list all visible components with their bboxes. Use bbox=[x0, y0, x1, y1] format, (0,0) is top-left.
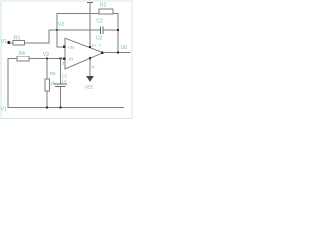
svg-text:V1: V1 bbox=[1, 106, 7, 112]
svg-text:R5: R5 bbox=[50, 71, 56, 76]
junction dot output/loop bbox=[117, 52, 119, 54]
wire staircase to node bbox=[49, 29, 58, 31]
junction dot R5 branch bbox=[46, 58, 48, 60]
svg-text:U2: U2 bbox=[96, 36, 103, 42]
resistor R4 bbox=[17, 56, 29, 61]
wire C1 top lead bbox=[60, 59, 62, 84]
wire inverting node vertical bbox=[56, 13, 58, 47]
capacitor C1 bbox=[54, 84, 67, 87]
svg-text:1k: 1k bbox=[50, 81, 55, 86]
terminal square V1 bbox=[7, 41, 10, 44]
border frame bbox=[1, 1, 132, 118]
svg-text:1u: 1u bbox=[62, 78, 67, 83]
pin square -IN bbox=[63, 57, 66, 60]
wire R5 bottom lead bbox=[46, 91, 48, 108]
wire bottom rail bbox=[8, 107, 124, 109]
junction dot C1 branch bbox=[60, 58, 62, 60]
junction dot C1 rail bbox=[60, 107, 62, 109]
pin square +IN bbox=[63, 46, 66, 49]
svg-text:V1: V1 bbox=[1, 39, 7, 45]
node junction dot bbox=[56, 29, 58, 31]
wire C1 bottom lead bbox=[60, 86, 62, 107]
svg-text:C2: C2 bbox=[96, 18, 103, 24]
resistor R2 top bbox=[99, 9, 113, 14]
wire right loop vertical bbox=[117, 14, 119, 53]
wire +IN lead bbox=[57, 46, 64, 48]
pin square V+ bbox=[89, 46, 91, 48]
wire node to C2 bbox=[57, 29, 100, 31]
wire VCC to V+ pin bbox=[89, 2, 91, 47]
wire V- pin to VEE bbox=[89, 58, 91, 76]
capacitor C2 bbox=[100, 26, 103, 34]
junction dot R5 rail bbox=[46, 107, 48, 109]
wire left to R4 bbox=[8, 58, 18, 60]
resistor R1 bbox=[13, 40, 24, 45]
wire R1 to staircase bbox=[24, 42, 49, 44]
svg-text:R2: R2 bbox=[100, 2, 107, 8]
wire R4 to -IN bbox=[29, 58, 64, 60]
wire left vertical bbox=[7, 59, 9, 108]
svg-text:+IN: +IN bbox=[67, 45, 74, 50]
op-amp U2 triangle bbox=[65, 38, 103, 69]
wire V1 to R1 bbox=[10, 42, 13, 44]
svg-text:2: 2 bbox=[62, 62, 64, 66]
svg-text:V2: V2 bbox=[43, 52, 49, 58]
wire top feedback bbox=[57, 13, 100, 15]
wire staircase vertical bbox=[48, 30, 50, 44]
VEE arrow bbox=[86, 76, 94, 82]
background bbox=[0, 0, 133, 120]
VCC T-bar bbox=[87, 1, 93, 3]
wire R5 top lead bbox=[46, 59, 48, 79]
svg-text:VEE: VEE bbox=[85, 85, 94, 90]
svg-text:-IN: -IN bbox=[67, 57, 73, 62]
pin square V- bbox=[89, 57, 91, 59]
svg-text:U0: U0 bbox=[121, 45, 128, 51]
wire C2 to loop bbox=[103, 29, 118, 31]
wire R2 to corner bbox=[113, 13, 119, 15]
left border dotted bbox=[0, 4, 2, 116]
svg-text:V+: V+ bbox=[92, 43, 98, 48]
pin square OUT bbox=[101, 51, 104, 54]
svg-text:V-: V- bbox=[92, 64, 97, 69]
wire output bbox=[103, 52, 131, 54]
resistor R5 bbox=[45, 79, 50, 91]
svg-text:V2: V2 bbox=[58, 22, 64, 28]
junction dot loop/C2 bbox=[117, 29, 119, 31]
svg-text:7: 7 bbox=[99, 44, 101, 48]
